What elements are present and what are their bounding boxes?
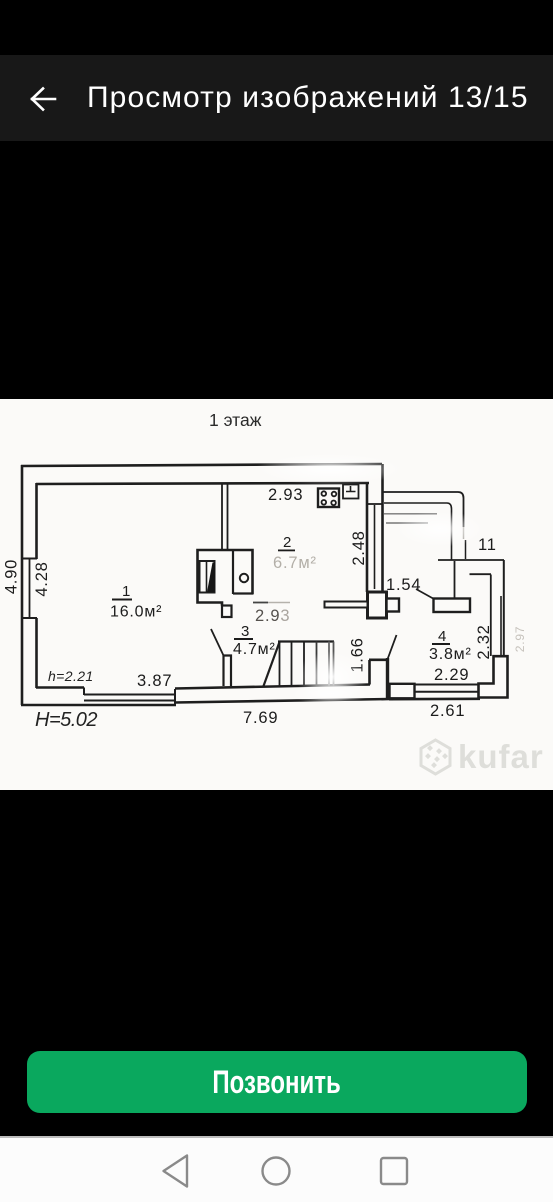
stairs treads [280, 642, 334, 687]
partition room1/room2 [221, 484, 223, 549]
room1 bottom window lines [84, 694, 174, 696]
floor plan white sheet [0, 399, 553, 790]
nav recents square [376, 1153, 412, 1189]
svg-text:2.29: 2.29 [434, 666, 469, 684]
svg-text:4.7м²: 4.7м² [233, 641, 276, 658]
svg-text:H=5.02: H=5.02 [35, 709, 97, 731]
scan glare spots [255, 453, 485, 704]
svg-text:1: 1 [122, 583, 131, 600]
svg-text:3.87: 3.87 [137, 672, 172, 690]
room2 right wall window tick [367, 503, 382, 505]
stove protruding square [222, 606, 232, 618]
bottom-right corner L wall [479, 656, 508, 697]
room4 door swing [388, 635, 397, 659]
porch landing left edge [454, 561, 456, 598]
room4 window lines [415, 684, 479, 686]
bottom navigation bar [0, 1136, 553, 1202]
svg-text:3: 3 [241, 623, 250, 640]
niche top edge [369, 658, 387, 661]
room4 right wall inner line [490, 575, 492, 657]
sink icon [343, 485, 359, 499]
svg-text:2.97: 2.97 [513, 626, 527, 653]
stove block outline [198, 550, 253, 606]
room2 right wall outer [381, 464, 384, 593]
svg-text:11: 11 [478, 536, 497, 554]
room3/4 divider wall [386, 658, 389, 699]
svg-text:6.7м²: 6.7м² [273, 554, 317, 572]
stove bottom right edge [233, 592, 254, 594]
nav back triangle [158, 1152, 194, 1190]
small step square [387, 599, 400, 612]
room1 underline [112, 599, 132, 601]
room2 right wall middle window line [374, 505, 376, 589]
room3 door stub wall [224, 656, 232, 687]
left wall window ticks [22, 558, 37, 560]
room1 bottom outer line [21, 704, 176, 707]
stove black wedge [207, 563, 215, 593]
room4 bottom outlined wall piece [390, 684, 415, 699]
svg-text:4.90: 4.90 [3, 559, 21, 594]
room2 label underline [278, 550, 295, 552]
svg-text:kufar: kufar [458, 738, 544, 775]
middle bottom wall bottom line [175, 699, 390, 703]
svg-text:2.48: 2.48 [350, 530, 368, 565]
porch right outer line [503, 560, 505, 656]
room1 bottom window tick left [83, 688, 85, 696]
porch outline line 4 [386, 522, 428, 524]
porch outline line 3 [384, 513, 437, 515]
svg-text:2.93: 2.93 [268, 486, 303, 504]
header title [87, 81, 553, 115]
svg-text:7.69: 7.69 [243, 709, 278, 727]
room1 bottom inner line [36, 686, 84, 689]
svg-text:3.8м²: 3.8м² [429, 646, 472, 663]
wall bar room2/room3 [325, 602, 368, 608]
top wall outer line [21, 464, 382, 466]
svg-text:4.28: 4.28 [33, 561, 51, 596]
sink tap [346, 486, 356, 492]
stairs diagonal [264, 642, 280, 686]
stove sub-box divider [206, 561, 208, 593]
gas stove burners [322, 491, 337, 505]
leader line 1.54 [416, 589, 434, 599]
svg-text:4: 4 [438, 628, 447, 645]
svg-text:16.0м²: 16.0м² [110, 604, 162, 621]
stove left sub-box [200, 561, 215, 593]
call button label [27, 1051, 527, 1113]
back arrow icon [26, 82, 62, 116]
svg-text:2.93: 2.93 [255, 607, 290, 625]
left wall outer [21, 465, 24, 705]
tick before 11 [465, 540, 467, 559]
gas stove icon [318, 489, 339, 508]
svg-text:2.61: 2.61 [430, 702, 465, 720]
bottom wall step at x=176 [174, 689, 176, 705]
stairs top line [278, 640, 334, 642]
svg-text:2.32: 2.32 [475, 624, 493, 659]
kufar watermark [421, 738, 544, 775]
svg-text:h=2.21: h=2.21 [48, 668, 94, 684]
faint wall line right of stove [253, 602, 268, 604]
niche left edge [368, 660, 371, 685]
middle bottom wall top line [175, 685, 370, 689]
room3 underline [234, 638, 253, 640]
porch landing line [438, 559, 504, 561]
room4 right wall middle line [500, 596, 502, 656]
svg-text:1.54: 1.54 [386, 576, 421, 594]
dimension texts [3, 486, 528, 731]
green call button [27, 1051, 527, 1113]
app header bar [0, 55, 553, 141]
top wall inner line [36, 483, 369, 484]
stove circle [240, 574, 248, 582]
left wall window middle line [29, 559, 31, 618]
room2 right wall inner [366, 483, 369, 592]
nav home circle [258, 1153, 294, 1189]
porch step rect 1.54 [434, 599, 471, 613]
svg-text:1 этаж: 1 этаж [209, 410, 262, 430]
left wall inner upper [35, 483, 38, 559]
svg-text:2: 2 [283, 534, 292, 551]
porch step tick [470, 573, 492, 575]
room3 door swing [211, 629, 224, 656]
porch outline line 2 [384, 503, 452, 560]
room4 bottom outer line [389, 697, 480, 700]
junction block [368, 592, 387, 618]
stove top edge detail [232, 550, 234, 594]
room4 underline [432, 643, 450, 645]
porch outline line 1 [382, 492, 464, 527]
left wall inner lower [35, 618, 38, 688]
